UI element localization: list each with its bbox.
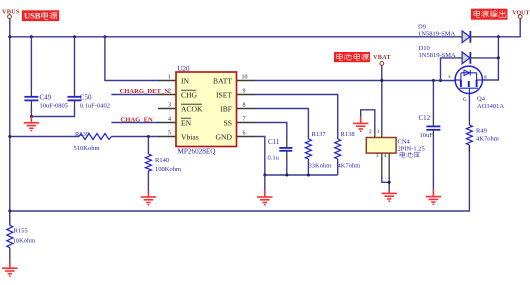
svg-text:VBAT: VBAT [373,54,391,61]
svg-text:1N5819-SMA: 1N5819-SMA [418,30,456,37]
resistor R137 [305,131,331,175]
svg-text:3: 3 [168,103,171,109]
wire: C49 top lead [30,37,32,96]
wire: pin9 ISET to R138 [255,95,338,140]
svg-text:GND: GND [216,132,233,141]
svg-text:C12: C12 [419,114,431,122]
wire: C49 bottom lead [30,101,32,116]
U20 pin names [181,76,233,141]
node: junction CN4 bottom pins [388,181,391,184]
svg-text:U20: U20 [178,65,191,73]
node: junction C50 top [73,35,76,38]
wire: R49 bottom lead [468,145,470,152]
wire: bottom long wire rail to R49 [10,146,470,211]
CN4 top pin numbers [369,130,380,135]
node: junction pin1 riser [103,35,106,38]
svg-text:CN4: CN4 [398,138,411,145]
wire: C50 bottom lead [31,101,74,116]
connector CN4 [366,138,424,158]
svg-text:2: 2 [369,130,372,135]
node: junction pin6/gnd stem [263,174,266,177]
wire: right rail vertical [482,37,498,80]
wire: pin10 BATT bus to MOSFET [255,80,456,82]
wire: R155 to ground [9,248,11,262]
node: junction D10 riser [439,79,442,82]
svg-text:6: 6 [243,131,246,137]
svg-text:R155: R155 [14,227,28,234]
svg-text:C11: C11 [268,138,280,146]
ground: under C12 [426,190,441,206]
resistor R155 [7,211,35,248]
wire: pin4 CHAG_EN [111,122,158,124]
svg-text:C50: C50 [80,93,92,101]
wire: gate to R49 [468,95,470,125]
transistor Q4 AO3401A [449,66,505,110]
node: junction D9 cathode / right rail [497,35,500,38]
port VBUS [2,9,20,19]
svg-text:IN: IN [181,76,190,85]
resistor R139 [74,131,112,152]
diode D10 [419,45,478,64]
wire: pin8 IBF to R137 [255,109,308,140]
node: junction D10 cathode on rail [497,56,500,59]
net label box: 电池电源 [334,52,370,62]
wire: ground rail [265,174,338,176]
wire: VBUS left rail vertical [9,18,11,225]
op-amp U20 pin stubs left (dark) [158,81,176,137]
svg-text:10uF-0805: 10uF-0805 [40,102,69,109]
node: junction rail/pin5 wire [8,135,11,138]
svg-text:Q4: Q4 [477,96,486,103]
svg-text:G: G [463,98,467,103]
svg-text:R137: R137 [312,131,327,138]
svg-text:8: 8 [243,103,246,109]
svg-text:1N5819-SMA: 1N5819-SMA [419,52,457,59]
svg-text:R49: R49 [476,128,487,135]
svg-text:R139: R139 [75,131,89,138]
svg-text:33Kohm: 33Kohm [309,163,332,170]
svg-text:4K7ohm: 4K7ohm [476,136,499,143]
IC U20 MP26028EQ body [176,65,237,156]
svg-text:IBF: IBF [220,104,232,113]
svg-text:CHARG_DET_N: CHARG_DET_N [120,88,170,95]
svg-text:100Kohm: 100Kohm [155,166,181,173]
svg-text:10uF: 10uF [420,132,434,139]
U20 active-low overlines [181,90,202,118]
ground: under R140 [141,191,156,206]
svg-text:3: 3 [376,154,379,159]
svg-text:MP26028EQ: MP26028EQ [178,148,217,156]
svg-text:9: 9 [243,89,246,95]
diode D9 [418,24,478,43]
CN4 bottom pins [382,153,389,190]
svg-text:4K7ohm: 4K7ohm [338,163,361,170]
wire: C50 top lead [74,37,76,96]
svg-text:0.1uF-0402: 0.1uF-0402 [80,102,110,109]
wire: D9 cathode to VOUT corner [478,19,521,37]
capacitor C12 [419,81,441,190]
svg-text:AO3401A: AO3401A [477,103,504,110]
U20 pin numbers [168,75,248,137]
resistor R49 [466,125,498,145]
wire: pin5 net from rail through R139 [10,136,79,138]
node: junction R140 tap [147,135,150,138]
node: junction VBAT on BATT bus [380,79,383,82]
svg-text:1: 1 [168,75,171,81]
svg-text:4: 4 [384,154,387,159]
ground: under C49 [24,117,39,132]
svg-text:C49: C49 [40,93,52,101]
wire: D10 cathode to right rail [478,57,499,59]
capacitor C50 [68,93,110,109]
ground: under U20 GND rail [257,190,272,206]
svg-text:7: 7 [243,117,246,123]
port VOUT [512,10,529,18]
resistor R138 [335,131,361,175]
svg-text:s: s [449,75,451,80]
port VBAT [373,54,391,66]
node: junction C12 tap [432,79,435,82]
svg-text:Vbias: Vbias [181,132,199,141]
svg-text:10Kohm: 10Kohm [13,238,36,245]
svg-text:10: 10 [242,75,248,81]
capacitor C11 [268,138,293,175]
wire: VBAT column [381,65,383,131]
ground: under CN4 [382,190,397,202]
svg-text:USB: USB [24,11,41,21]
net label box: 电源输出 [471,9,508,20]
wire: pin6 GND down [255,137,265,176]
resistor R140 [145,137,181,174]
svg-text:ISET: ISET [216,90,232,99]
net label CHAG_EN [121,116,153,123]
CN4 pin 1 lead [381,131,383,138]
net label box: USB电源 [22,10,59,21]
svg-text:0.1u: 0.1u [268,155,280,162]
node: junction left rail bottom wire [8,210,11,213]
svg-text:BATT: BATT [213,76,232,85]
net label CHARG_DET_N [120,88,170,95]
svg-text:5: 5 [168,131,171,137]
ground: CN4 left [353,117,368,133]
svg-text:ACOK: ACOK [181,104,203,113]
wire: pin1 riser and horizontal to IC [105,37,159,81]
U20 pin stubs right (dark) [237,81,256,137]
svg-text:1: 1 [377,130,380,135]
CN4 pin 2 to local ground [361,110,375,138]
svg-text:EN: EN [181,118,192,127]
svg-text:2: 2 [168,89,171,95]
node: junction C49/C50 bottom [30,115,33,118]
svg-text:VBUS: VBUS [2,9,20,16]
wire: R140 to ground [147,171,149,191]
svg-text:SS: SS [224,118,232,127]
ground: under R155 [2,262,17,277]
wire: top VBUS bus horizontal [10,36,457,38]
CN4 bottom pin numbers [376,154,387,159]
wire: pin7 SS to C11 [255,123,287,140]
wire: gnd stem below rail [264,175,266,190]
node: junction R137 bottom [307,174,310,177]
wire: pin2 CHARG_DET_N [111,94,158,96]
svg-text:R140: R140 [155,157,169,164]
svg-text:2PIN-1.25: 2PIN-1.25 [398,146,425,153]
wire: D10 anode riser [441,58,457,81]
node: junction on rail at top bus [8,35,11,38]
wire: R139 to pin5 [111,136,158,138]
node: junction C49 top [30,35,33,38]
svg-text:R138: R138 [341,131,355,138]
svg-text:CHG: CHG [181,90,198,99]
svg-text:4: 4 [168,117,171,123]
node: junction C11 bottom [285,174,288,177]
capacitor C49 [24,93,68,109]
svg-text:510Kohm: 510Kohm [74,145,100,152]
